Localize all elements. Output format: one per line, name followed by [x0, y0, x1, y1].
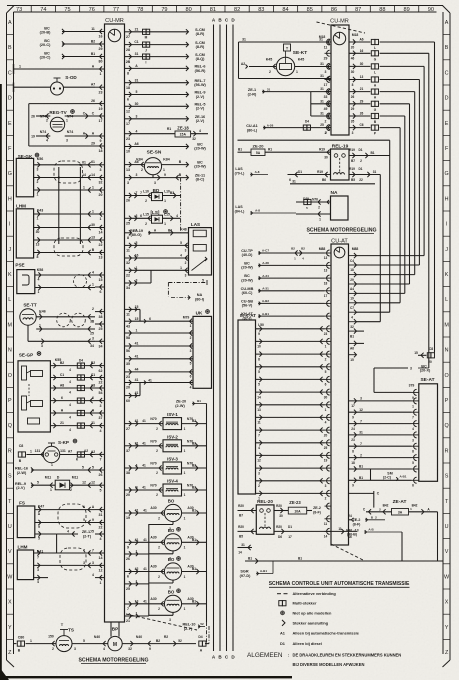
svg-text:PSE: PSE	[15, 263, 24, 268]
svg-text:M79: M79	[183, 316, 190, 320]
svg-text:379: 379	[409, 384, 415, 388]
wire row 184	[290, 183, 375, 185]
svg-text:14: 14	[99, 556, 103, 560]
svg-text:(84-L): (84-L)	[235, 209, 246, 213]
wire to REL-7	[132, 82, 189, 84]
svg-text:M: M	[113, 642, 117, 648]
svg-text:N70: N70	[150, 462, 156, 466]
svg-text:6: 6	[149, 317, 151, 321]
svg-text:41: 41	[135, 354, 139, 358]
svg-text:15: 15	[414, 351, 418, 355]
svg-text:A6: A6	[134, 142, 138, 146]
wire FS pins	[35, 509, 95, 511]
svg-text:D6: D6	[278, 535, 282, 539]
svg-text:A: A	[445, 20, 449, 26]
svg-text:B2: B2	[192, 464, 196, 468]
svg-text:2: 2	[258, 484, 260, 488]
svg-text:3: 3	[136, 173, 138, 177]
svg-text:LAS: LAS	[191, 222, 200, 227]
svg-text:REG-TV: REG-TV	[49, 110, 67, 115]
svg-text:N40: N40	[94, 635, 100, 639]
wire TS to BP	[72, 643, 108, 645]
svg-text:4: 4	[190, 385, 192, 389]
wire BO row 2	[132, 541, 165, 543]
svg-text:15: 15	[350, 358, 354, 362]
svg-text:B1: B1	[298, 557, 302, 561]
wire UK brackets	[139, 309, 141, 321]
svg-text::: :	[288, 653, 289, 658]
svg-text:D1: D1	[298, 170, 302, 174]
wire long row B1	[245, 560, 443, 562]
svg-text:1: 1	[163, 168, 165, 172]
svg-text:7: 7	[127, 607, 129, 611]
svg-text:R19: R19	[319, 148, 325, 152]
svg-text:8: 8	[352, 83, 354, 87]
svg-text:9: 9	[352, 415, 354, 419]
svg-text:46: 46	[351, 57, 355, 61]
svg-text:3: 3	[190, 349, 192, 353]
svg-text:22: 22	[99, 381, 103, 385]
svg-text:4: 4	[180, 254, 182, 258]
svg-text:23: 23	[126, 137, 130, 141]
svg-text:R19: R19	[349, 167, 355, 171]
wire out A6	[349, 41, 370, 43]
svg-text:K48: K48	[180, 228, 186, 232]
svg-text:1: 1	[184, 546, 186, 550]
svg-text:5: 5	[258, 370, 260, 374]
svg-text:2: 2	[156, 493, 158, 497]
svg-text:20: 20	[126, 493, 130, 497]
svg-text:(8-R): (8-R)	[196, 45, 205, 49]
svg-text:2: 2	[158, 546, 160, 550]
svg-text:17: 17	[324, 294, 328, 298]
svg-text:14: 14	[257, 395, 261, 399]
svg-text:7: 7	[412, 416, 414, 420]
svg-text:N74: N74	[40, 130, 47, 134]
wire CU-AT B1 stub	[357, 330, 365, 332]
svg-text:A-8: A-8	[255, 170, 260, 174]
svg-text:Y: Y	[445, 625, 449, 631]
fuse ZE-18	[132, 133, 176, 135]
CU-MR left keying circle	[108, 29, 120, 41]
svg-text:K58: K58	[37, 268, 44, 272]
svg-text:22: 22	[126, 274, 130, 278]
svg-text:13: 13	[36, 243, 40, 247]
svg-text:B2: B2	[60, 361, 64, 365]
svg-text:(8-C): (8-C)	[196, 178, 205, 182]
svg-text:3: 3	[92, 561, 94, 565]
svg-text:1: 1	[50, 488, 52, 492]
svg-text:SE-SN: SE-SN	[147, 150, 162, 156]
svg-text:H: H	[445, 196, 449, 202]
wire SE-KT row	[249, 66, 276, 68]
svg-text:R19: R19	[317, 170, 323, 174]
svg-text:3: 3	[360, 397, 362, 401]
svg-text:5: 5	[37, 481, 39, 485]
svg-text:23: 23	[99, 90, 103, 94]
svg-text:A-31: A-31	[262, 287, 269, 291]
svg-text:74: 74	[40, 7, 46, 13]
svg-text:2: 2	[325, 357, 327, 361]
svg-text:A6: A6	[359, 38, 363, 42]
svg-text:K: K	[8, 272, 12, 278]
svg-text:K56: K56	[37, 157, 44, 161]
svg-text:29: 29	[99, 47, 103, 51]
svg-text:150: 150	[48, 635, 54, 639]
svg-text:1: 1	[184, 516, 186, 520]
scan edge bottom	[0, 676, 292, 678]
wire row 283	[132, 282, 152, 284]
svg-text:D1: D1	[358, 167, 362, 171]
svg-text:31: 31	[267, 87, 271, 91]
svg-text:P: P	[8, 398, 12, 404]
svg-text:6: 6	[61, 396, 63, 400]
svg-text:20: 20	[126, 386, 130, 390]
wire dash-dot vertical LS	[180, 178, 182, 233]
svg-text:14: 14	[238, 551, 242, 555]
svg-text:11: 11	[126, 249, 130, 253]
svg-text:4: 4	[46, 139, 48, 143]
wire S-KP right	[60, 454, 95, 456]
svg-text:M11: M11	[72, 476, 79, 480]
svg-text:4: 4	[38, 278, 40, 282]
wire SE-AT feed rows	[349, 400, 412, 402]
svg-text:(80-G): (80-G)	[131, 233, 143, 237]
svg-text:2: 2	[269, 70, 271, 74]
svg-text:1: 1	[184, 449, 186, 453]
svg-text:D: D	[8, 96, 12, 102]
svg-text:8: 8	[412, 450, 414, 454]
svg-text:23: 23	[126, 375, 130, 379]
svg-text:N70: N70	[150, 417, 156, 421]
svg-text:2: 2	[360, 453, 362, 457]
wire BO link row	[132, 615, 149, 617]
svg-text:4: 4	[92, 573, 94, 577]
svg-text:9: 9	[149, 647, 151, 651]
wire CU-TP connectors	[295, 250, 298, 255]
svg-text:19: 19	[99, 107, 103, 111]
legend stekker aansluiting	[282, 620, 285, 626]
svg-text:4: 4	[412, 427, 414, 431]
svg-text:25: 25	[126, 587, 130, 591]
wire REL-19 right top	[349, 155, 390, 157]
svg-text:Q: Q	[8, 423, 12, 429]
svg-text:C: C	[8, 70, 12, 76]
svg-text:D: D	[445, 96, 449, 102]
svg-text:V: V	[8, 549, 12, 555]
dashed diagonal below CU-AT	[331, 544, 363, 560]
svg-text:1: 1	[164, 199, 166, 203]
svg-text:SE-AT: SE-AT	[420, 377, 434, 383]
svg-text:B1: B1	[248, 557, 252, 561]
svg-text:21: 21	[126, 619, 130, 623]
svg-text:B1: B1	[192, 567, 196, 571]
wire BO bottom pin 1	[172, 522, 174, 525]
svg-text:4: 4	[37, 580, 39, 584]
svg-text:K45: K45	[298, 58, 305, 62]
svg-text:R20: R20	[276, 504, 282, 508]
SE-AT pins	[414, 389, 417, 395]
svg-text:38: 38	[126, 471, 130, 475]
svg-text:14: 14	[324, 535, 328, 539]
svg-text:1: 1	[100, 72, 102, 76]
svg-text:B1: B1	[192, 538, 196, 542]
svg-text:12: 12	[99, 569, 103, 573]
svg-text:A8: A8	[60, 384, 64, 388]
svg-text:1: 1	[83, 186, 85, 190]
svg-text:30: 30	[360, 62, 364, 66]
svg-text:31: 31	[320, 74, 324, 78]
wire out 16	[349, 52, 370, 54]
svg-text:N76: N76	[312, 197, 318, 201]
svg-text:13: 13	[91, 235, 95, 239]
svg-text:3: 3	[169, 618, 171, 622]
svg-text:20: 20	[99, 193, 103, 197]
svg-text:26: 26	[99, 473, 103, 477]
svg-text:12: 12	[91, 481, 95, 485]
cable shield dash circles SE-TT	[57, 313, 71, 327]
terminal row C	[14, 68, 96, 70]
svg-text:(20-C): (20-C)	[40, 43, 51, 47]
wire REL-19 bottom row	[288, 174, 331, 176]
svg-text:19: 19	[350, 297, 354, 301]
svg-text:M88: M88	[319, 247, 326, 251]
svg-text:31: 31	[241, 543, 245, 547]
svg-text:J: J	[445, 247, 448, 253]
wire to REL-5	[132, 105, 189, 107]
svg-text:A-B1: A-B1	[399, 475, 406, 479]
svg-text:31: 31	[292, 179, 296, 183]
svg-text:31: 31	[135, 52, 139, 56]
svg-text:16: 16	[348, 535, 352, 539]
wire out 13	[349, 79, 370, 81]
svg-text:B2: B2	[91, 39, 95, 43]
svg-text:B5: B5	[239, 535, 243, 539]
svg-text:B7: B7	[351, 159, 355, 163]
svg-text:80: 80	[186, 7, 192, 13]
wire C corner top	[349, 492, 374, 494]
svg-text:2: 2	[318, 205, 320, 209]
svg-text:1: 1	[39, 324, 41, 328]
svg-text:10: 10	[126, 150, 130, 154]
svg-text:12: 12	[126, 110, 130, 114]
wire BO link row	[132, 553, 149, 555]
svg-text:21: 21	[135, 27, 139, 31]
svg-text:12: 12	[82, 481, 86, 485]
svg-text:3: 3	[185, 273, 187, 277]
svg-text:(8-Q): (8-Q)	[196, 57, 206, 61]
svg-text:35: 35	[126, 362, 130, 366]
svg-text:56: 56	[126, 349, 130, 353]
wire out 29	[349, 103, 370, 105]
cable shield dash circle	[74, 275, 87, 288]
wire vertical feed right of ISV	[206, 404, 208, 623]
svg-text:20: 20	[428, 360, 432, 364]
svg-text:L: L	[8, 297, 11, 303]
svg-text:29: 29	[360, 99, 364, 103]
svg-text:BO: BO	[168, 499, 175, 504]
svg-text:BIJ DIVERSE MODELLEN AFWIJKEN: BIJ DIVERSE MODELLEN AFWIJKEN	[293, 662, 365, 667]
svg-text:6: 6	[127, 575, 129, 579]
svg-text:X: X	[8, 600, 12, 606]
svg-text:33: 33	[324, 95, 328, 99]
svg-text:D4: D4	[198, 635, 202, 639]
svg-text:Stekker aansluiting: Stekker aansluiting	[293, 620, 329, 625]
svg-text:J: J	[145, 48, 147, 52]
wire BD row	[132, 195, 152, 197]
svg-text:8: 8	[352, 449, 354, 453]
svg-text:30: 30	[36, 230, 40, 234]
svg-text:R20: R20	[238, 504, 244, 508]
svg-text:ZE-23: ZE-23	[289, 500, 301, 505]
svg-text:E: E	[445, 121, 449, 127]
svg-text:12: 12	[359, 408, 363, 412]
svg-text:7: 7	[100, 458, 102, 462]
dashed diagonal top	[317, 22, 366, 33]
svg-text:61: 61	[91, 160, 95, 164]
svg-text:8: 8	[127, 236, 129, 240]
svg-text:9: 9	[258, 332, 260, 336]
svg-text:16: 16	[99, 35, 103, 39]
wire LHM lower pins	[34, 552, 95, 554]
svg-text:32: 32	[126, 261, 130, 265]
svg-text:SE-KT: SE-KT	[293, 50, 307, 56]
svg-text:D4: D4	[305, 120, 309, 124]
svg-text:D1: D1	[280, 641, 286, 646]
svg-text:B42: B42	[383, 504, 389, 508]
wire BO chain vertical	[148, 524, 150, 616]
svg-text:K84: K84	[136, 158, 143, 162]
svg-text:4: 4	[258, 446, 260, 450]
svg-text:9: 9	[100, 139, 102, 143]
svg-text:31: 31	[135, 78, 139, 82]
svg-text:29: 29	[324, 57, 328, 61]
svg-text:41: 41	[142, 419, 146, 423]
svg-text:FS: FS	[19, 501, 25, 506]
wire SE-SN bottom pin	[152, 175, 154, 178]
svg-text:R20: R20	[276, 525, 282, 529]
svg-text:CU-MR: CU-MR	[105, 18, 124, 24]
svg-text:2: 2	[156, 427, 158, 431]
svg-text:19: 19	[126, 516, 130, 520]
svg-text:86: 86	[331, 7, 337, 13]
svg-text:5: 5	[180, 241, 182, 245]
svg-text:ISV-1: ISV-1	[167, 412, 178, 417]
svg-text:B7: B7	[239, 514, 243, 518]
svg-text:41: 41	[142, 486, 146, 490]
svg-text:1: 1	[51, 463, 53, 467]
svg-text:(20-B): (20-B)	[40, 31, 51, 35]
svg-text:5: 5	[100, 488, 102, 492]
svg-text:CU-AT: CU-AT	[331, 239, 348, 245]
svg-text:10: 10	[257, 345, 261, 349]
svg-text:2: 2	[39, 312, 41, 316]
svg-text:LHM: LHM	[16, 204, 26, 209]
svg-text:2: 2	[158, 516, 160, 520]
svg-text:(20-C): (20-C)	[40, 56, 51, 60]
svg-text:1: 1	[412, 404, 414, 408]
svg-text:A-C7: A-C7	[262, 249, 269, 253]
svg-text:3: 3	[66, 139, 68, 143]
svg-text:32: 32	[99, 181, 103, 185]
svg-text:A-B2: A-B2	[262, 299, 269, 303]
svg-text:I: I	[446, 222, 448, 228]
svg-text:C7: C7	[350, 306, 354, 310]
wire top-right bracket	[238, 42, 240, 79]
wire drop vertical	[434, 42, 436, 352]
svg-text:SCHEMA MOTORREGELING: SCHEMA MOTORREGELING	[78, 658, 148, 664]
svg-text:A30: A30	[150, 597, 156, 601]
svg-text:22: 22	[99, 243, 103, 247]
svg-text:11: 11	[91, 27, 95, 31]
svg-text:Alleen bij diesel: Alleen bij diesel	[293, 641, 322, 646]
svg-text:41: 41	[135, 342, 139, 346]
svg-text:2B: 2B	[126, 60, 131, 64]
svg-text:41: 41	[143, 509, 147, 513]
svg-text:1: 1	[184, 471, 186, 475]
svg-text:3: 3	[412, 438, 414, 442]
svg-text:6: 6	[412, 484, 414, 488]
svg-text:20: 20	[324, 433, 328, 437]
svg-text:(56-V): (56-V)	[242, 304, 253, 308]
svg-text:3: 3	[37, 568, 39, 572]
wire SE-AT join vertical	[370, 469, 372, 480]
svg-text:N: N	[8, 348, 12, 354]
wire out 26	[349, 115, 370, 117]
svg-text:A2: A2	[241, 62, 245, 66]
svg-text:B6: B6	[322, 178, 326, 182]
svg-text:CU-MR: CU-MR	[330, 19, 349, 25]
svg-text:K45: K45	[266, 58, 273, 62]
svg-text:C80: C80	[18, 636, 25, 640]
svg-text:(2-W): (2-W)	[17, 471, 27, 475]
svg-text:88: 88	[379, 7, 385, 13]
svg-text:9: 9	[164, 173, 166, 177]
svg-text:41: 41	[143, 538, 147, 542]
svg-text:M11: M11	[45, 476, 52, 480]
svg-text:L: L	[445, 297, 448, 303]
svg-text:G: G	[8, 171, 12, 177]
svg-text:2: 2	[360, 159, 362, 163]
svg-text:24: 24	[348, 514, 352, 518]
wire BO row 4	[132, 603, 165, 605]
svg-text:15: 15	[135, 317, 139, 321]
cable shield dashes lower	[54, 238, 83, 256]
svg-text:X: X	[445, 600, 449, 606]
svg-text:R2: R2	[164, 635, 168, 639]
svg-text:4: 4	[325, 421, 327, 425]
wire ISV-4 row	[132, 489, 164, 491]
svg-text:L15: L15	[143, 213, 149, 217]
svg-text:C8: C8	[19, 444, 24, 448]
wire dash-dot NA link	[168, 282, 207, 284]
svg-text:ALGEMEEN: ALGEMEEN	[247, 652, 283, 659]
svg-text:131: 131	[60, 449, 66, 453]
svg-text:87: 87	[355, 7, 361, 13]
svg-text:1: 1	[92, 185, 94, 189]
svg-text:(56-R): (56-R)	[195, 69, 206, 73]
svg-text:2: 2	[141, 168, 143, 172]
svg-text:BO: BO	[168, 557, 175, 562]
svg-text:37: 37	[126, 449, 130, 453]
svg-text:A-34: A-34	[262, 274, 269, 278]
cable shield dashes FS	[58, 504, 86, 528]
svg-text:S-KP: S-KP	[58, 440, 69, 445]
svg-text:5: 5	[82, 466, 84, 470]
svg-text:30: 30	[279, 514, 283, 518]
wire to S-CM	[132, 31, 189, 33]
svg-text:4: 4	[69, 416, 71, 420]
